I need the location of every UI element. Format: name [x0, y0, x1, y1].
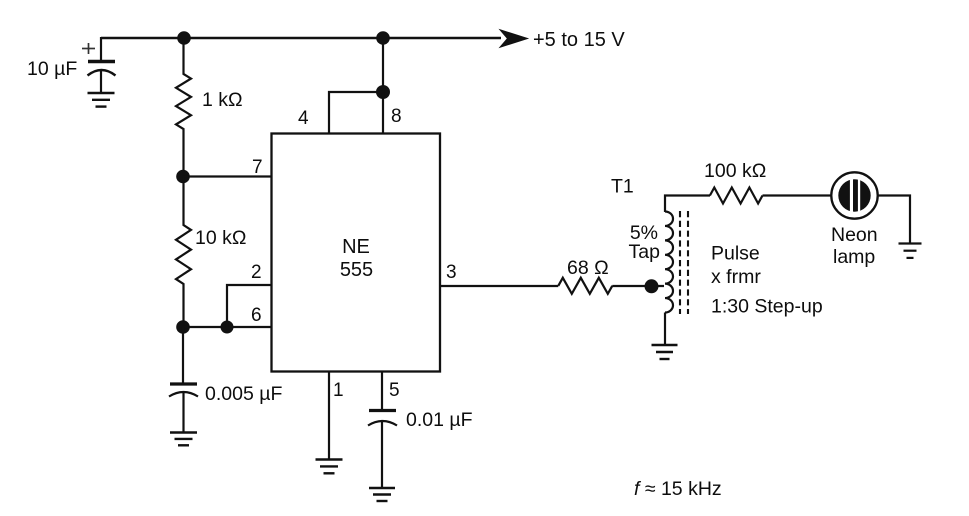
svg-text:Neon: Neon — [831, 224, 878, 246]
wire: pin 2 jog down to pin 6 net — [227, 285, 272, 327]
wire: node down to C2 — [182, 327, 184, 384]
capacitor C1 10 uF (polarized) — [82, 43, 116, 93]
ground: pin 1 — [316, 460, 343, 474]
wire: node to pin 6 — [183, 326, 272, 328]
junction: pin 4 / pin 8 tie — [376, 85, 390, 99]
svg-text:555: 555 — [340, 259, 373, 281]
svg-text:4: 4 — [298, 108, 309, 129]
junction: R1/R2/pin7 node — [176, 170, 190, 184]
resistor R1 1 kOhm — [176, 38, 191, 177]
svg-text:T1: T1 — [611, 176, 634, 198]
svg-text:68 Ω: 68 Ω — [567, 257, 609, 279]
junction: R2/C2/pin6 node — [176, 320, 190, 334]
ground: neon lamp — [899, 244, 922, 258]
svg-text:5: 5 — [389, 380, 400, 401]
svg-text:0.005 µF: 0.005 µF — [205, 383, 282, 405]
wire: top rail down to pins 4/8 — [382, 38, 384, 92]
svg-text:lamp: lamp — [833, 246, 875, 268]
svg-text:Pulse: Pulse — [711, 243, 760, 265]
op IC U1 NE555 body — [272, 134, 441, 372]
svg-text:0.01 µF: 0.01 µF — [406, 409, 473, 431]
svg-text:10 µF: 10 µF — [27, 58, 77, 80]
svg-text:f ≈ 15 kHz: f ≈ 15 kHz — [634, 478, 722, 500]
ground: T1 — [652, 345, 678, 359]
ground: C2 — [170, 433, 197, 446]
svg-text:Tap: Tap — [629, 241, 661, 263]
svg-text:+5 to 15 V: +5 to 15 V — [533, 29, 625, 51]
power arrow: +5 to 15 V supply — [500, 30, 528, 47]
svg-text:10 kΩ: 10 kΩ — [195, 227, 246, 249]
resistor R3 68 Ohm — [558, 278, 612, 294]
ground: C3 — [369, 488, 395, 501]
wire: T1 bottom lead to ground — [664, 313, 666, 346]
wire: +V supply top rail — [101, 37, 501, 39]
wire: pin 1 to ground — [328, 371, 330, 460]
wire: pin 8 drop — [382, 92, 384, 134]
neon lamp DS1 — [831, 172, 877, 218]
wire: pin 3 output — [440, 285, 558, 287]
junction: 5% tap node — [645, 279, 659, 293]
wire: node to pin 7 — [183, 175, 272, 177]
capacitor C2 0.005 uF — [169, 384, 198, 433]
svg-text:8: 8 — [391, 106, 402, 127]
wire: neon lamp to ground — [878, 196, 910, 244]
wire: R3 to transformer tap — [612, 285, 664, 287]
svg-text:7: 7 — [252, 157, 263, 178]
capacitor C3 0.01 uF — [368, 411, 397, 489]
resistor R2 10 kOhm — [176, 177, 191, 328]
svg-text:1 kΩ: 1 kΩ — [202, 89, 243, 111]
wire: top rail to C1 positive terminal — [100, 37, 102, 61]
ground: C1 — [88, 93, 115, 107]
svg-text:100 kΩ: 100 kΩ — [704, 160, 766, 182]
wire: pin 5 to C3 — [381, 371, 383, 410]
svg-text:6: 6 — [251, 305, 262, 326]
transformer T1 core (dashed) — [679, 211, 681, 314]
junction: top rail / R1 node — [177, 31, 191, 45]
svg-text:NE: NE — [342, 236, 370, 258]
transformer T1 winding — [665, 212, 673, 313]
svg-text:3: 3 — [446, 262, 457, 283]
resistor R4 100 kOhm — [710, 188, 763, 204]
svg-text:2: 2 — [251, 262, 262, 283]
svg-text:1:30 Step-up: 1:30 Step-up — [711, 296, 823, 318]
wire: R4 to neon lamp — [763, 194, 832, 196]
wire: jog to pin 4 — [329, 92, 383, 134]
svg-text:x frmr: x frmr — [711, 266, 761, 288]
junction: top rail / pin 8 branch — [376, 31, 390, 45]
svg-text:1: 1 — [333, 380, 344, 401]
junction: pin 2 / pin 6 tie — [221, 321, 234, 334]
wire: T1 top lead — [665, 196, 710, 213]
